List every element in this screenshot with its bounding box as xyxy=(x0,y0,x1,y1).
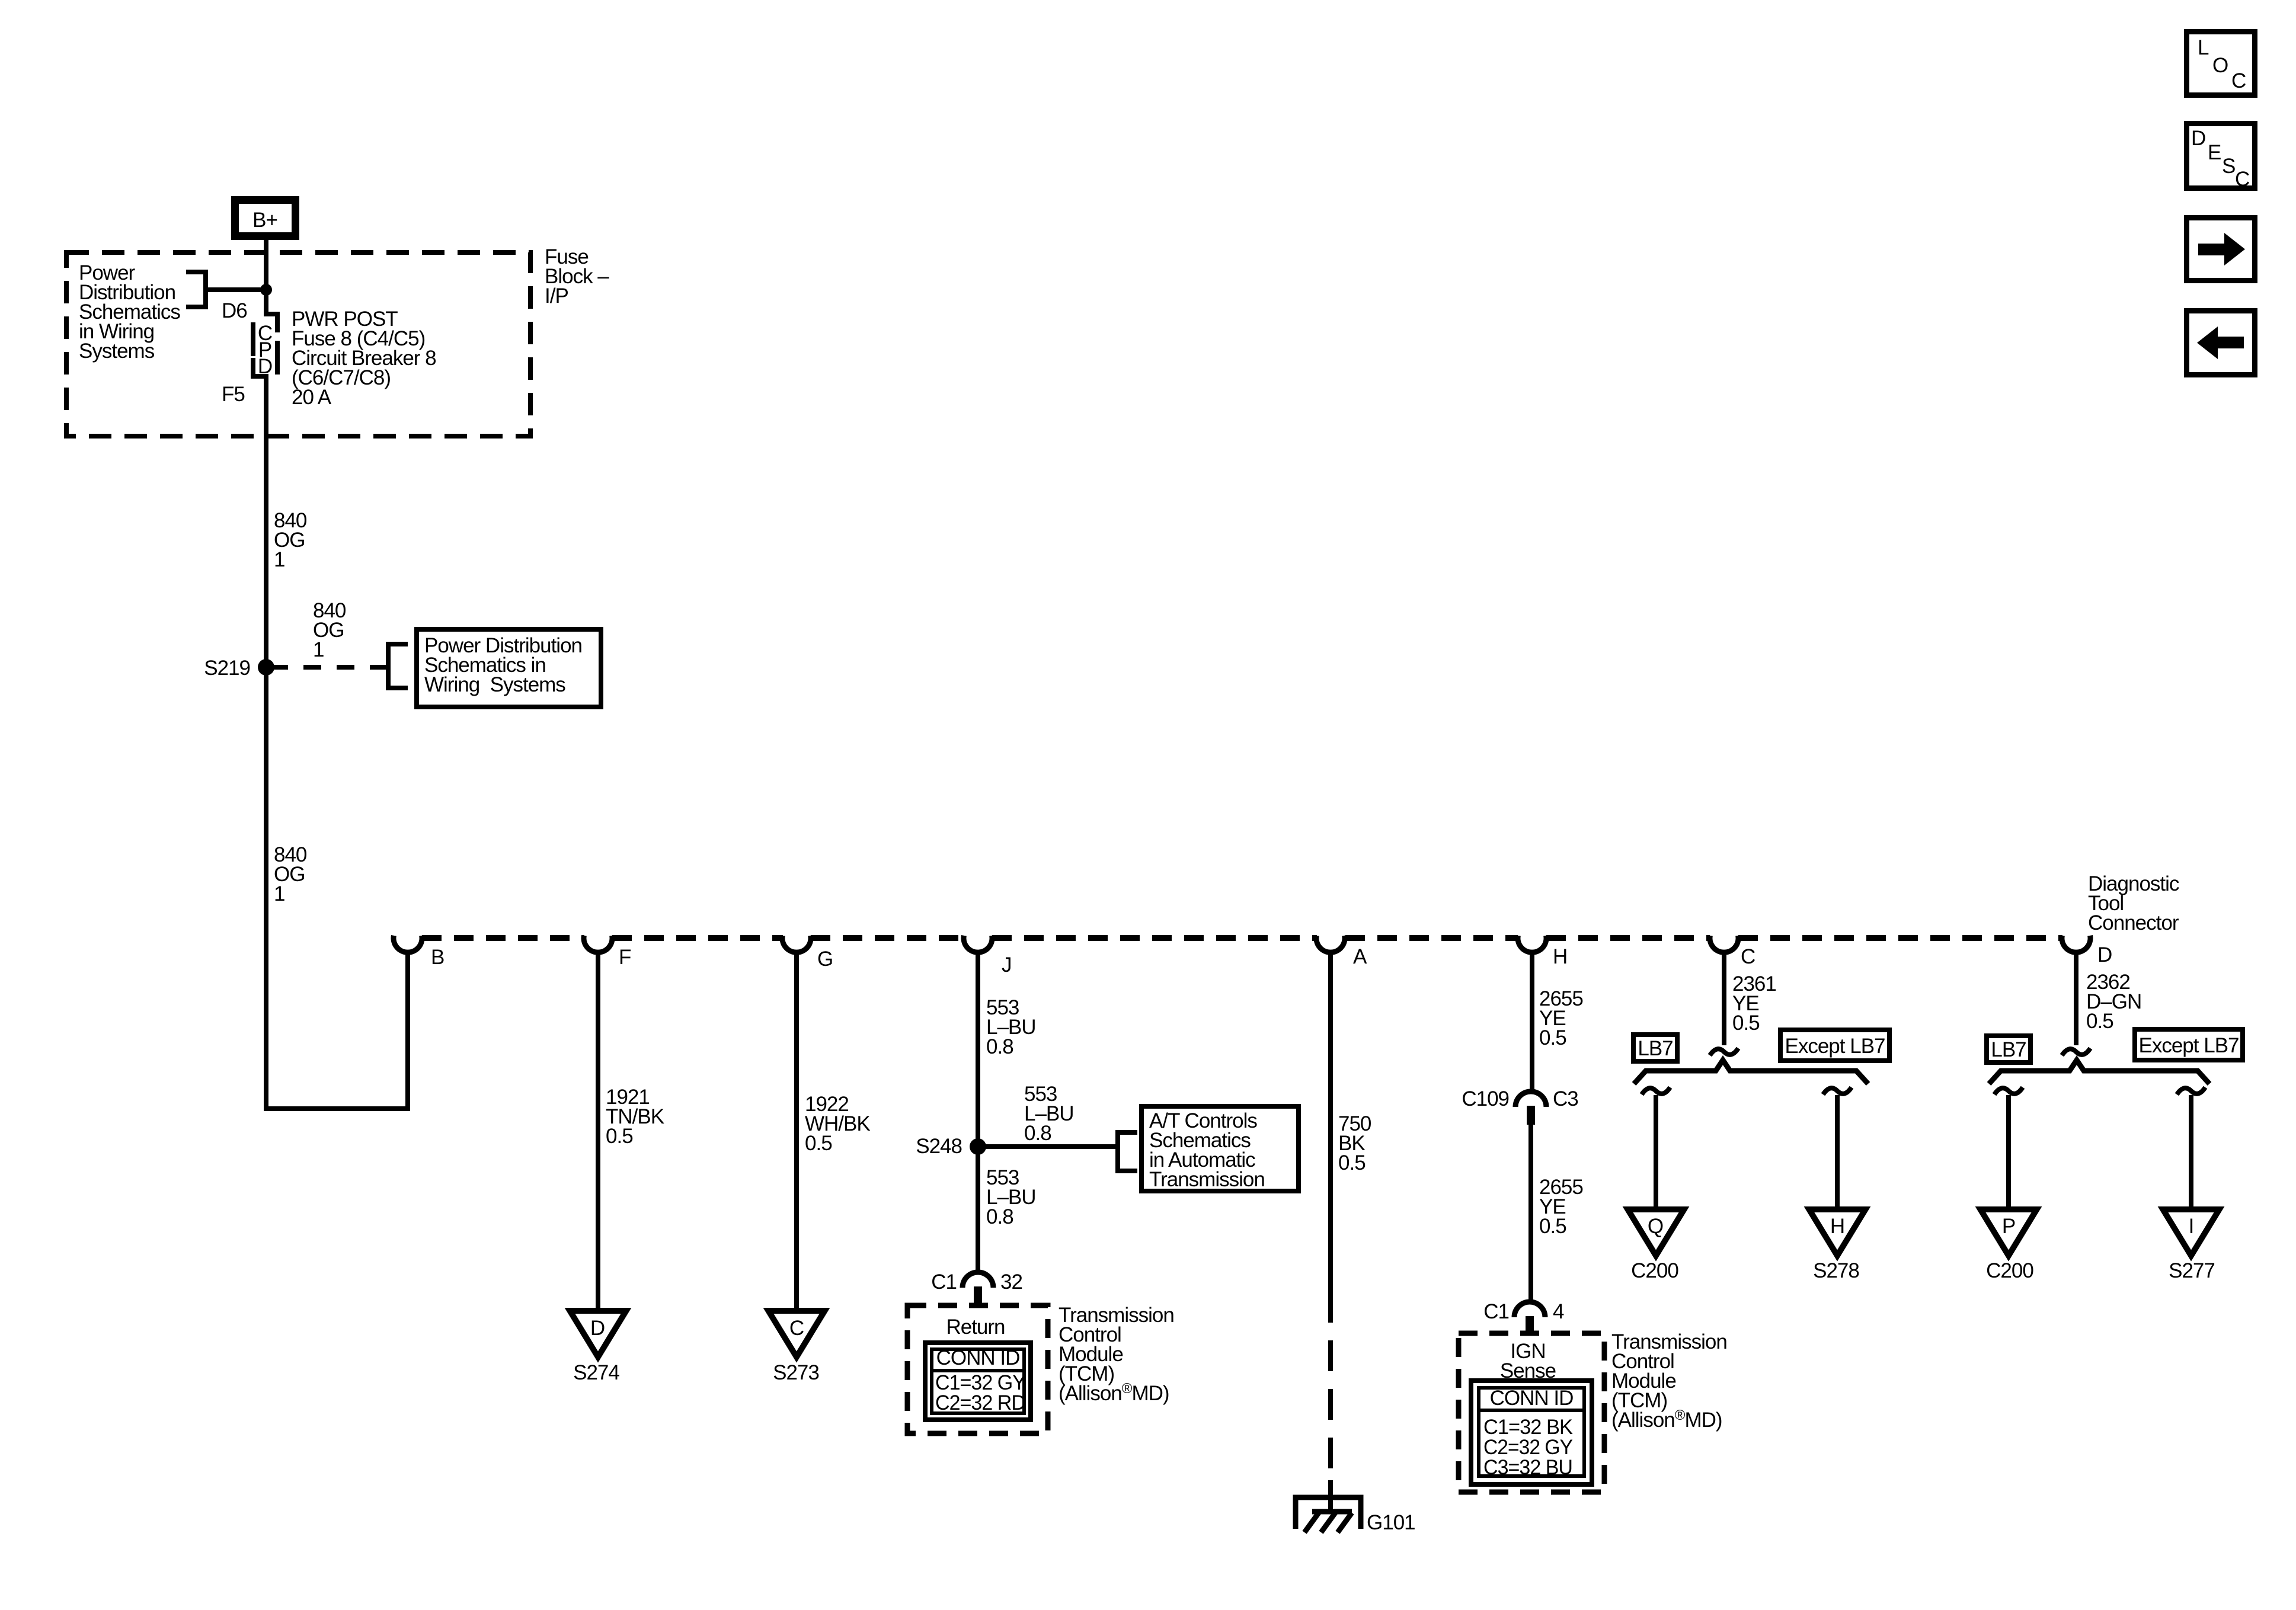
connector C1 pin 4 TCM IGN xyxy=(1514,1302,1545,1335)
wire to P triangle xyxy=(2006,1095,2011,1209)
box LB7 group D xyxy=(1987,1036,2030,1062)
dashed wire S219 to bracket xyxy=(270,665,388,670)
TCM IGN Sense dashed box xyxy=(1459,1333,1604,1492)
label Fuse Block I/P xyxy=(545,245,609,308)
node junction D6 xyxy=(260,284,272,296)
svg-text:S278: S278 xyxy=(1813,1259,1859,1282)
svg-text:C3=32 BU: C3=32 BU xyxy=(1483,1456,1572,1479)
svg-text:CONN ID: CONN ID xyxy=(1490,1387,1574,1410)
svg-text:LB7: LB7 xyxy=(1991,1038,2026,1061)
svg-text:C: C xyxy=(789,1317,804,1340)
svg-text:C2=32 RD: C2=32 RD xyxy=(935,1391,1025,1414)
svg-text:A: A xyxy=(1353,945,1367,968)
label Transmission Control Module TCM Allison MD (Return) xyxy=(1059,1304,1174,1405)
label PWR POST Fuse 8 Circuit Breaker 8 20 A xyxy=(292,308,436,409)
svg-text:C109: C109 xyxy=(1462,1087,1509,1110)
terminal B+ xyxy=(231,196,299,240)
splice S219 xyxy=(258,659,274,676)
svg-text:C1: C1 xyxy=(931,1270,957,1294)
svg-text:Connector: Connector xyxy=(2088,911,2179,934)
connector C xyxy=(1710,936,1738,952)
svg-text:S219: S219 xyxy=(204,657,250,680)
label 1921 TN/BK 0.5 xyxy=(606,1086,664,1148)
label 553 L-BU 0.8 branch xyxy=(1024,1083,1074,1145)
svg-text:0.5: 0.5 xyxy=(1732,1012,1760,1035)
svg-text:0.5: 0.5 xyxy=(1539,1215,1566,1238)
label 750 BK 0.5 xyxy=(1338,1112,1371,1174)
svg-text:E: E xyxy=(2208,141,2221,164)
svg-text:F: F xyxy=(619,946,631,969)
bus dashed wire segment A-H xyxy=(1345,935,1518,941)
connector J xyxy=(964,936,992,952)
label Transmission Control Module TCM Allison MD (IGN) xyxy=(1611,1330,1727,1432)
wire B+ to junction xyxy=(264,240,268,290)
svg-text:C: C xyxy=(2231,69,2246,92)
svg-text:1: 1 xyxy=(274,548,284,571)
svg-text:C200: C200 xyxy=(1631,1259,1678,1282)
connector G xyxy=(782,936,811,952)
label 2655 YE 0.5 upper xyxy=(1539,987,1583,1049)
ground G101 xyxy=(1296,1497,1361,1532)
connector A xyxy=(1316,936,1345,952)
svg-text:Systems: Systems xyxy=(79,340,155,363)
svg-text:0.5: 0.5 xyxy=(2086,1010,2113,1033)
TCM Return dashed box xyxy=(907,1305,1048,1433)
squiggle D wire end xyxy=(2062,1048,2090,1055)
brace LB7 / Except LB7 group C xyxy=(1634,1060,1868,1084)
svg-text:0.8: 0.8 xyxy=(986,1205,1013,1228)
box LB7 group C xyxy=(1633,1035,1677,1061)
wire 553 branch J lower xyxy=(976,1147,980,1273)
squiggle I wire top xyxy=(2177,1087,2205,1094)
legend box LOC xyxy=(2187,32,2255,95)
wire 553 S248 to A/T bracket xyxy=(978,1144,1118,1149)
svg-text:H: H xyxy=(1553,945,1567,968)
connector C1 pin 32 TCM Return xyxy=(962,1272,993,1305)
svg-text:D: D xyxy=(2097,943,2112,966)
wire 840 OG fuse to S219 xyxy=(264,374,268,667)
wire to I triangle xyxy=(2189,1095,2193,1209)
label Diagnostic Tool Connector xyxy=(2088,872,2179,934)
svg-text:Return: Return xyxy=(946,1315,1005,1339)
svg-text:D: D xyxy=(2191,127,2205,150)
svg-text:Transmission: Transmission xyxy=(1149,1168,1265,1191)
label 840 OG 1 lower xyxy=(274,843,307,905)
bracket to A/T Controls box xyxy=(1118,1132,1137,1171)
triangle terminal D (S274) xyxy=(570,1311,626,1357)
svg-text:C200: C200 xyxy=(1986,1259,2033,1282)
label IGN Sense xyxy=(1500,1340,1556,1382)
wire 1922 branch G xyxy=(794,951,799,1311)
svg-text:0.5: 0.5 xyxy=(1539,1026,1566,1049)
wire 840 OG S219 down to bus branch B xyxy=(266,667,408,1109)
svg-text:C: C xyxy=(1741,945,1755,968)
svg-text:D6: D6 xyxy=(222,299,247,322)
squiggle Q wire top xyxy=(1642,1087,1670,1094)
box Power Distribution Schematics in Wiring Systems xyxy=(417,629,601,707)
legend arrow right xyxy=(2187,218,2255,281)
svg-text:G101: G101 xyxy=(1367,1511,1415,1534)
box A/T Controls Schematics in Automatic Transmission xyxy=(1141,1106,1299,1191)
box Except LB7 group C xyxy=(1780,1030,1889,1061)
svg-text:LB7: LB7 xyxy=(1638,1037,1673,1060)
bus dashed wire segment F-G xyxy=(612,935,783,941)
connector F xyxy=(584,936,612,952)
triangle terminal H (S278) xyxy=(1809,1209,1866,1256)
bus dashed wire segment J-A xyxy=(992,935,1317,941)
squiggle C wire end xyxy=(1710,1048,1738,1055)
svg-text:P: P xyxy=(2002,1215,2015,1238)
svg-text:Except LB7: Except LB7 xyxy=(2139,1034,2239,1057)
svg-text:C1: C1 xyxy=(1483,1300,1509,1323)
connector B xyxy=(394,936,422,952)
svg-text:CONN ID: CONN ID xyxy=(936,1346,1020,1369)
svg-text:(Allison®MD): (Allison®MD) xyxy=(1059,1381,1169,1405)
legend box DESC xyxy=(2187,124,2255,191)
label 553 L-BU 0.8 lower xyxy=(986,1166,1036,1228)
svg-text:Wiring Systems: Wiring Systems xyxy=(424,673,565,696)
label 2361 YE 0.5 xyxy=(1732,972,1776,1035)
svg-text:J: J xyxy=(1002,953,1012,977)
svg-text:0.5: 0.5 xyxy=(1338,1151,1366,1174)
triangle terminal C (S273) xyxy=(769,1311,825,1357)
svg-text:I/P: I/P xyxy=(545,284,568,308)
svg-text:S: S xyxy=(2222,155,2235,178)
svg-text:Except LB7: Except LB7 xyxy=(1785,1035,1885,1058)
CONN ID table Return xyxy=(925,1343,1031,1420)
splice S248 xyxy=(970,1138,986,1155)
svg-text:32: 32 xyxy=(1000,1270,1022,1294)
box Except LB7 group D xyxy=(2135,1029,2243,1060)
legend arrow left xyxy=(2187,311,2255,375)
wire to H triangle xyxy=(1835,1095,1840,1209)
svg-text:S248: S248 xyxy=(916,1135,962,1158)
wire 553 branch J upper xyxy=(976,951,980,1147)
dashed wire 750 to ground xyxy=(1328,1323,1333,1470)
svg-text:G: G xyxy=(817,948,833,971)
connector C109 / C3 xyxy=(1515,1092,1546,1125)
svg-text:S273: S273 xyxy=(773,1361,819,1384)
CONN ID table IGN xyxy=(1471,1381,1592,1484)
bus dashed wire segment H-C xyxy=(1546,935,1710,941)
wire to Q triangle xyxy=(1654,1095,1658,1209)
svg-text:0.8: 0.8 xyxy=(986,1035,1013,1058)
wire 750 BK upper xyxy=(1328,951,1333,1323)
svg-text:I: I xyxy=(2189,1215,2194,1238)
bus dashed wire segment C-D xyxy=(1738,935,2062,941)
triangle terminal I (S277) xyxy=(2163,1209,2220,1256)
triangle terminal P (C200) xyxy=(1981,1209,2037,1256)
svg-text:C3: C3 xyxy=(1553,1087,1578,1110)
label 840 OG 1 branch xyxy=(313,599,346,661)
svg-text:0.5: 0.5 xyxy=(805,1132,832,1155)
svg-text:4: 4 xyxy=(1553,1300,1564,1323)
bracket to Power Distribution reference xyxy=(186,272,206,307)
svg-text:(Allison®MD): (Allison®MD) xyxy=(1611,1407,1722,1432)
connector H xyxy=(1518,936,1546,952)
svg-text:D: D xyxy=(590,1317,605,1340)
svg-text:H: H xyxy=(1830,1215,1844,1238)
svg-text:20 A: 20 A xyxy=(292,386,332,409)
svg-text:S277: S277 xyxy=(2169,1259,2215,1282)
squiggle H wire top xyxy=(1823,1087,1851,1094)
svg-text:B: B xyxy=(431,946,444,969)
wire junction to bracket xyxy=(206,287,266,292)
label 2362 D-GN 0.5 xyxy=(2086,971,2141,1033)
svg-text:0.8: 0.8 xyxy=(1024,1122,1051,1145)
connector D xyxy=(2062,936,2090,952)
label Power Distribution Schematics in Wiring Systems xyxy=(79,261,180,363)
triangle terminal Q (C200) xyxy=(1628,1209,1684,1256)
bus dashed wire segment B-F xyxy=(422,935,584,941)
wire 2655 lower xyxy=(1528,1125,1533,1303)
svg-text:0.5: 0.5 xyxy=(606,1125,633,1148)
svg-text:B+: B+ xyxy=(252,209,277,232)
svg-text:Q: Q xyxy=(1648,1215,1663,1238)
svg-text:F5: F5 xyxy=(222,383,245,406)
wire 1921 branch F xyxy=(596,951,600,1311)
svg-text:S274: S274 xyxy=(573,1361,619,1384)
svg-text:O: O xyxy=(2212,54,2228,77)
wire into ground xyxy=(1328,1480,1333,1512)
svg-text:C: C xyxy=(2235,168,2249,191)
svg-text:1: 1 xyxy=(274,882,284,905)
fuse block dashed box xyxy=(66,252,530,436)
wire 2362 D-GN xyxy=(2074,951,2078,1045)
svg-text:L: L xyxy=(2198,36,2209,59)
wire junction to circuit breaker xyxy=(264,290,268,316)
wire 2655 upper xyxy=(1530,951,1534,1093)
brace LB7 / Except LB7 group D xyxy=(1989,1060,2209,1084)
label 1922 WH/BK 0.5 xyxy=(805,1093,870,1155)
label 840 OG 1 upper xyxy=(274,509,307,571)
label 553 L-BU 0.8 upper xyxy=(986,996,1036,1058)
circuit breaker CPD symbol xyxy=(253,314,277,378)
bracket to Power Distribution box xyxy=(388,644,408,688)
squiggle P wire top xyxy=(1994,1087,2023,1094)
svg-text:1: 1 xyxy=(313,638,324,661)
label 2655 YE 0.5 lower xyxy=(1539,1176,1583,1238)
bus dashed wire segment G-J xyxy=(811,935,964,941)
wire 2361 YE xyxy=(1722,951,1726,1045)
